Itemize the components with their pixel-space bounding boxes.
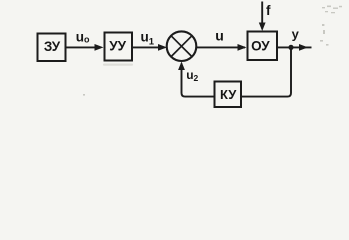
summing junction circle: [167, 31, 197, 61]
wire feedback: KU to summing junction: [182, 64, 215, 97]
arrowhead f into OU top: [259, 23, 266, 32]
wire ZU to UU: [66, 46, 102, 48]
block ZU (ЗУ): [38, 34, 66, 62]
block UU (УУ): [105, 33, 133, 61]
arrowhead u2 into summing junction bottom: [178, 62, 185, 71]
svg-text:УУ: УУ: [109, 38, 126, 53]
block OU (ОУ): [248, 32, 278, 61]
svg-text:КУ: КУ: [220, 87, 237, 102]
arrowhead into UU: [95, 44, 104, 51]
svg-text:u: u: [215, 27, 224, 43]
block KU (КУ): [215, 82, 242, 108]
arrowhead into OU: [238, 44, 247, 51]
wire UU to summing junction: [132, 46, 165, 48]
svg-text:f: f: [266, 3, 271, 18]
arrowhead into summing junction (left): [158, 44, 167, 51]
junction node dot: [288, 45, 293, 50]
svg-text:ЗУ: ЗУ: [44, 39, 61, 54]
wire OU output y: [277, 46, 312, 48]
summing junction X: [171, 36, 192, 57]
scan noise top-right: [83, 6, 342, 96]
arrowhead on output y: [299, 44, 308, 51]
wire f input: [261, 2, 263, 29]
wire summing junction to OU: [196, 46, 245, 48]
wire feedback: junction down and left to KU: [241, 47, 291, 96]
svg-text:y: y: [292, 27, 300, 42]
svg-text:ОУ: ОУ: [251, 39, 270, 54]
